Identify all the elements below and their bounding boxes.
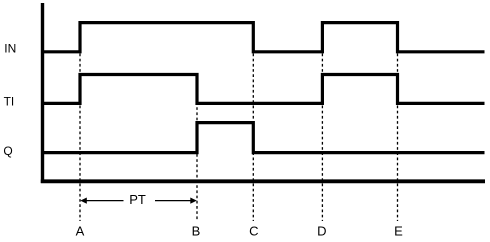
dashed timeline B bbox=[196, 76, 198, 221]
x-axis bbox=[41, 179, 485, 183]
svg-text:PT: PT bbox=[129, 192, 146, 207]
waveform TI bbox=[43, 75, 485, 104]
svg-text:C: C bbox=[249, 223, 258, 238]
waveform Q bbox=[43, 123, 485, 153]
svg-text:Q: Q bbox=[3, 144, 12, 158]
PT arrowhead right bbox=[190, 198, 197, 204]
svg-text:B: B bbox=[192, 223, 201, 238]
PT arrowhead left bbox=[80, 198, 87, 204]
svg-text:D: D bbox=[317, 223, 326, 238]
y-axis bbox=[41, 3, 44, 183]
dashed timeline D bbox=[321, 54, 323, 222]
svg-text:TI: TI bbox=[4, 95, 15, 109]
dashed timeline E bbox=[397, 54, 399, 222]
waveform IN bbox=[43, 23, 485, 52]
PT arrow right segment bbox=[155, 200, 192, 202]
svg-text:E: E bbox=[394, 223, 403, 238]
svg-text:IN: IN bbox=[4, 42, 16, 56]
dashed timeline A bbox=[79, 54, 81, 222]
dashed timeline C bbox=[252, 54, 254, 222]
PT arrow left segment bbox=[86, 200, 124, 202]
svg-text:A: A bbox=[76, 223, 85, 238]
